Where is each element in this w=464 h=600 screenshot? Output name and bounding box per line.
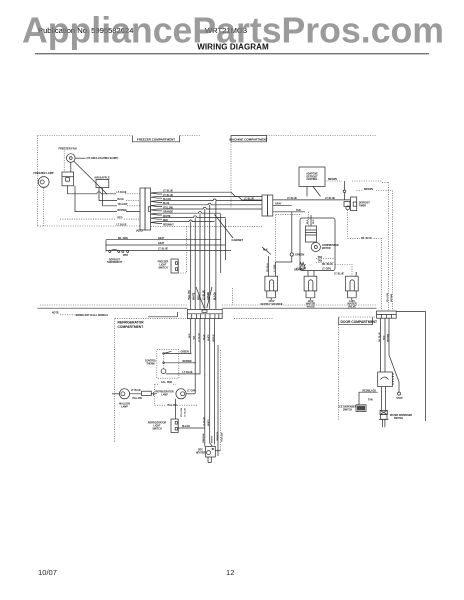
lower freezer wire GRAY: [106, 242, 226, 245]
air baffle body: [96, 179, 109, 187]
svg-text:DK. GRN: DK. GRN: [118, 238, 128, 240]
svg-text:10/07: 10/07: [38, 568, 57, 577]
svg-text:BLACK: BLACK: [163, 198, 171, 201]
compressor bottom leads: [296, 264, 352, 276]
svg-text:YELLOW: YELLOW: [132, 398, 143, 400]
lower freezer wire GREEN: [106, 237, 221, 240]
svg-text:WHITE: WHITE: [208, 334, 210, 341]
fan-out wire 8 RED: [151, 220, 215, 223]
svg-text:LT. BLUE: LT. BLUE: [199, 332, 201, 342]
svg-text:CAL. ROD: CAL. ROD: [161, 381, 172, 384]
bundle A below connector: [191, 319, 221, 456]
main rail solid: [37, 307, 376, 309]
machine dashed sub-box: [276, 215, 301, 262]
svg-text:BROWN: BROWN: [328, 179, 337, 181]
evap fan motor body: [62, 172, 74, 186]
svg-text:LIGHT: LIGHT: [154, 425, 161, 427]
fan-out wire 7 WHITE: [151, 216, 226, 219]
svg-text:GREEN: GREEN: [213, 334, 215, 342]
refrigerator compartment dashed box: [115, 318, 273, 443]
compressor motor: [311, 242, 320, 251]
svg-text:TAN: TAN: [296, 209, 301, 212]
water valve plug: [304, 276, 317, 300]
right lamp: [176, 389, 196, 399]
bundle A vertical wire 3: [199, 213, 201, 309]
defrost timer body: [351, 197, 357, 211]
adc control box: [299, 167, 325, 187]
svg-text:LT. GRN: LT. GRN: [322, 269, 331, 271]
right connector C4: [377, 311, 397, 318]
svg-text:YELLOW: YELLOW: [163, 207, 174, 209]
svg-text:DOOR COMPARTMENT: DOOR COMPARTMENT: [341, 320, 378, 324]
tan dashed jumpers: [316, 256, 335, 263]
svg-text:BLACK: BLACK: [182, 425, 190, 428]
bundle A vertical wire 2: [194, 217, 196, 309]
left junction vertical: [105, 240, 107, 252]
svg-text:REFRIGERATOR: REFRIGERATOR: [148, 421, 167, 424]
bundle B vertical wire 2: [225, 218, 227, 260]
cal rod dashed box: [155, 381, 198, 407]
freezer fan motor circle: [67, 154, 76, 163]
overload protector: [306, 226, 317, 242]
supply switch diagonal: [262, 247, 271, 276]
wire into refrigerator top: [148, 312, 177, 317]
refrigerator light switch label: [148, 421, 167, 430]
svg-text:BROWN: BROWN: [118, 210, 127, 212]
svg-text:DK. BLUE: DK. BLUE: [361, 238, 372, 240]
svg-text:WIRING NOT IN ALL MODELS: WIRING NOT IN ALL MODELS: [76, 314, 109, 317]
svg-text:TAN: TAN: [318, 260, 323, 263]
center connector C3: [187, 309, 222, 318]
dashed stub near cabinet: [232, 288, 234, 305]
ice dispenser actuator: [356, 405, 366, 412]
green ground terminal: [276, 212, 305, 276]
svg-text:REFRIGERATOR: REFRIGERATOR: [155, 390, 174, 393]
fan-out wire 9 dashed RED/WHT: [151, 224, 262, 226]
switch wire BLACK: [178, 425, 205, 428]
svg-text:LT. BLUE: LT. BLUE: [287, 198, 297, 200]
svg-text:YEL/BLK: YEL/BLK: [267, 263, 269, 272]
dispenser switch box: [378, 372, 394, 387]
fan-out wire 2 LT. BLUE: [151, 195, 262, 201]
svg-text:SWITCH: SWITCH: [152, 428, 161, 430]
svg-text:REFRIGERATOR: REFRIGERATOR: [118, 320, 145, 324]
heater valve plug: [346, 276, 359, 300]
machine compartment dashed box: [231, 136, 377, 209]
svg-text:THERMOSTAT: THERMOSTAT: [107, 261, 123, 264]
svg-text:MULLION: MULLION: [119, 403, 130, 405]
svg-text:MOTOR: MOTOR: [322, 248, 331, 250]
svg-text:LT. BLUE: LT. BLUE: [203, 416, 205, 426]
defrost heater label: [196, 450, 206, 455]
defrost thermostat label: [107, 259, 123, 264]
fan-out wire 3 BLACK: [151, 198, 262, 202]
svg-text:BROWN: BROWN: [183, 361, 192, 363]
svg-text:BLK: BLK: [307, 219, 309, 224]
baffle pin wire BROWN: [75, 186, 140, 212]
svg-text:YELLOW: YELLOW: [118, 204, 129, 206]
svg-text:SWITCH: SWITCH: [394, 418, 403, 420]
svg-text:RED: RED: [313, 219, 315, 224]
fan-out wire 1 LT. BLUE: [151, 191, 262, 197]
svg-text:THERM: THERM: [146, 363, 154, 365]
svg-text:LT. BLUE: LT. BLUE: [185, 407, 187, 417]
bundle A rotated labels above connector: [189, 289, 216, 300]
svg-text:BLACK: BLACK: [213, 292, 216, 300]
svg-text:YELLOW: YELLOW: [167, 405, 178, 407]
stop wire diagonal: [389, 355, 403, 400]
adc lead 1: [306, 187, 308, 197]
svg-text:FREEZER: FREEZER: [158, 261, 169, 263]
wire fan to baffle diagonal: [74, 161, 107, 194]
leader to shunt note: [75, 157, 85, 159]
compressor top leads: [307, 212, 315, 226]
wire RED dashed into connector: [60, 217, 140, 219]
defrost timer label: [359, 202, 371, 207]
svg-text:CABINET: CABINET: [232, 238, 244, 242]
water valve label: [306, 299, 315, 308]
svg-text:WIRING DIAGRAM: WIRING DIAGRAM: [197, 42, 269, 51]
machine right dashed bundle: [388, 182, 392, 311]
svg-text:YELLOW: YELLOW: [221, 432, 223, 442]
svg-text:LIGHT: LIGHT: [160, 264, 167, 266]
door compartment box: [339, 317, 377, 420]
svg-text:DEFROST: DEFROST: [307, 176, 319, 178]
fan-out wire 5 YELLOW: [151, 207, 262, 210]
svg-text:LT. BLUE: LT. BLUE: [117, 224, 127, 226]
svg-text:YELLOW: YELLOW: [181, 408, 183, 417]
right bundle rotated labels: [355, 271, 393, 302]
svg-text:LT. BLUE: LT. BLUE: [131, 390, 141, 392]
svg-text:RED: RED: [118, 217, 123, 219]
svg-text:DK. BLUE: DK. BLUE: [322, 264, 333, 266]
svg-text:TAN: TAN: [318, 256, 323, 259]
ice dispenser label: [339, 406, 357, 411]
svg-text:BLUE: BLUE: [163, 203, 170, 205]
dk blue dashed jumper: [348, 238, 382, 311]
bundle A vertical wire 5: [209, 205, 211, 309]
svg-text:MTR: MTR: [123, 255, 128, 257]
svg-text:TAN: TAN: [193, 335, 196, 340]
branch wire RED/BLACK: [359, 389, 378, 404]
svg-text:GRAY: GRAY: [158, 237, 165, 240]
svg-text:LT. BLUE: LT. BLUE: [163, 191, 173, 193]
svg-text:ICE DISPENSER: ICE DISPENSER: [339, 406, 357, 408]
svg-text:DEF.: DEF.: [198, 450, 203, 452]
svg-text:LT. BLUE: LT. BLUE: [158, 249, 168, 251]
wire C2 GRAY: [273, 202, 292, 205]
freezer compartment dashed box: [38, 136, 202, 227]
thermostat wire GREEN: [165, 352, 191, 354]
svg-text:YELLOW: YELLOW: [387, 293, 389, 302]
svg-text:COMPARTMENT: COMPARTMENT: [118, 325, 144, 329]
heater valve label: [347, 299, 356, 308]
wire C2 to relay LT. BLUE: [273, 198, 351, 200]
svg-text:DK. BLUE: DK. BLUE: [379, 332, 381, 342]
plug lead labels rotated: [267, 263, 276, 272]
svg-text:YELLOW: YELLOW: [189, 289, 191, 300]
svg-text:WHITE: WHITE: [212, 435, 214, 443]
freezer connector C1: [140, 188, 151, 230]
switch to plug wire: [381, 387, 385, 411]
svg-text:FREEZER LAMP: FREEZER LAMP: [33, 171, 53, 175]
svg-text:NOTE:: NOTE:: [52, 313, 59, 315]
svg-text:LT. BLUE: LT. BLUE: [296, 269, 306, 271]
defrost thermostat switch: [109, 249, 120, 252]
left lamp label: [119, 403, 130, 408]
svg-text:RED: RED: [163, 220, 168, 222]
thermostat wire BROWN: [165, 361, 196, 363]
svg-text:BLUE: BLUE: [118, 199, 125, 201]
svg-text:BLK: BLK: [263, 250, 268, 252]
svg-text:STOP: STOP: [396, 398, 403, 400]
svg-text:LT. BLUE: LT. BLUE: [325, 198, 335, 200]
wire C2 TAN: [273, 209, 305, 212]
svg-text:WATER DISPENSER: WATER DISPENSER: [390, 414, 412, 417]
title rule: [35, 53, 429, 55]
wire lamp down dashed: [43, 188, 45, 227]
freezer light switch body: [171, 259, 178, 273]
adc control label: [306, 173, 318, 182]
svg-text:BROWN: BROWN: [391, 293, 393, 302]
svg-text:FREEZER COMPARTMENT: FREEZER COMPARTMENT: [137, 138, 175, 142]
note text: [52, 313, 108, 317]
lamp to switch lead: [176, 399, 187, 419]
svg-text:DEFROST: DEFROST: [109, 259, 121, 261]
adc lead 2: [313, 187, 321, 197]
adc dashed lead right BROWN: [325, 179, 388, 182]
svg-text:LAMP: LAMP: [121, 405, 128, 408]
fan-out wire 6 ORANGE: [151, 211, 221, 215]
refrigerator lamp label: [155, 390, 174, 396]
relay bracket and coil: [344, 202, 350, 239]
svg-text:LT. BLUE: LT. BLUE: [334, 273, 344, 275]
refrigerator compartment label: [118, 320, 145, 328]
svg-text:WHITE: WHITE: [163, 216, 171, 218]
bundle A vertical wire 1: [190, 222, 192, 309]
baffle pin wire YELLOW: [103, 188, 141, 206]
svg-text:(TO AREA LIGHTING SHUNT): (TO AREA LIGHTING SHUNT): [87, 157, 119, 160]
connector C2: [262, 195, 273, 216]
compressor label: [322, 245, 339, 250]
svg-text:RED/BLACK: RED/BLACK: [363, 389, 377, 392]
svg-text:HEATER: HEATER: [196, 451, 206, 454]
svg-text:ORANGE: ORANGE: [216, 431, 219, 441]
thermistor label: [390, 414, 412, 420]
thermistor probe: [379, 410, 389, 427]
left lamp: [112, 389, 130, 399]
svg-text:C. GRN: C. GRN: [274, 264, 276, 272]
svg-text:ADAPTIVE: ADAPTIVE: [306, 173, 318, 176]
bundle funnel into connector: [196, 287, 212, 308]
control thermostat label: [145, 360, 157, 365]
control thermostat box: [157, 350, 196, 379]
svg-text:SWITCH: SWITCH: [158, 267, 167, 269]
defrost heater box: [206, 446, 221, 462]
supply source plug: [265, 276, 278, 300]
svg-text:WRT21MG3: WRT21MG3: [205, 26, 247, 35]
bundle A rotated labels below connector: [189, 332, 219, 441]
svg-text:MACHINE COMPARTMENT: MACHINE COMPARTMENT: [229, 138, 267, 142]
svg-text:TIMER: TIMER: [359, 205, 366, 207]
defrost timer vertical wire with terminal: [343, 181, 346, 200]
lamp fuse link: [130, 390, 157, 400]
baffle pin wire BLUE: [99, 188, 140, 201]
svg-text:LT. BLUE: LT. BLUE: [183, 372, 193, 374]
wire fan label to motor dashed: [63, 151, 65, 173]
svg-text:ORANGE: ORANGE: [163, 211, 174, 214]
bundle A vertical wire 6: [215, 201, 217, 309]
fan-out wire 4 BLUE: [151, 203, 262, 206]
svg-text:BROWN: BROWN: [388, 333, 390, 342]
svg-text:AIR BAFFLE: AIR BAFFLE: [94, 175, 110, 179]
brown dashed label right: [357, 189, 393, 191]
run capacitor zigzag: [300, 263, 306, 270]
svg-text:LT. GRN: LT. GRN: [187, 390, 196, 392]
wire fan circle to motor body: [70, 162, 72, 172]
svg-text:12: 12: [226, 568, 234, 577]
door bundle below connector: [381, 318, 389, 372]
svg-text:RED: RED: [189, 333, 191, 338]
freezer light switch label: [158, 261, 169, 269]
bundle A vertical wire 4: [204, 209, 206, 309]
door bundle rotated labels: [379, 332, 389, 342]
main rail dashed upper: [40, 304, 377, 306]
svg-text:BLUE: BLUE: [203, 334, 205, 340]
svg-text:LAMP: LAMP: [161, 393, 168, 396]
svg-text:TAN: TAN: [368, 398, 373, 401]
supply source label: [261, 299, 283, 306]
compressor housing: [300, 218, 335, 271]
defrost heater wire labels rotated: [202, 432, 223, 443]
svg-text:FREEZER FAN: FREEZER FAN: [58, 146, 76, 150]
dashed wire at freezer switch: [178, 226, 186, 273]
bundle B vertical wire 1: [220, 214, 222, 273]
svg-text:BROWN: BROWN: [364, 189, 373, 191]
svg-text:WHITE: WHITE: [208, 419, 210, 426]
svg-text:CONTROL: CONTROL: [306, 179, 318, 181]
lower freezer wire LT. BLUE: [106, 249, 231, 251]
svg-text:RED: RED: [384, 335, 386, 340]
refrigerator light switch body: [171, 419, 178, 432]
svg-text:CONTROL: CONTROL: [145, 360, 157, 362]
svg-text:TAN: TAN: [355, 271, 358, 276]
svg-text:ORANGE: ORANGE: [202, 433, 205, 443]
thermostat wire LT. BLUE: [166, 372, 200, 374]
wire labels above plugs: [294, 268, 344, 275]
svg-text:Publication No. 5995582624: Publication No. 5995582624: [38, 26, 133, 35]
svg-text:GRAY: GRAY: [275, 202, 282, 205]
svg-text:(ADC): (ADC): [136, 230, 143, 233]
svg-text:WHITE: WHITE: [194, 292, 196, 300]
wire motor bottom to connector: [68, 186, 141, 194]
svg-text:GREEN: GREEN: [181, 352, 190, 354]
svg-text:SWITCH: SWITCH: [343, 409, 352, 411]
door compartment right edge wire: [396, 312, 425, 422]
svg-text:GREEN: GREEN: [295, 253, 304, 257]
freezer lamp circle: [38, 177, 49, 188]
svg-text:COMPRESSOR: COMPRESSOR: [322, 245, 339, 247]
svg-text:LT. BLUE: LT. BLUE: [163, 195, 173, 197]
timer motor switch: [122, 251, 129, 257]
svg-text:RED/WHT: RED/WHT: [163, 224, 174, 226]
cabinet leader line: [215, 215, 234, 239]
svg-text:SUPPLY SOURCE: SUPPLY SOURCE: [261, 302, 283, 306]
svg-text:LT. BLUE: LT. BLUE: [203, 290, 205, 300]
svg-text:GRAY: GRAY: [158, 242, 165, 245]
svg-text:DEFROST: DEFROST: [359, 202, 371, 204]
